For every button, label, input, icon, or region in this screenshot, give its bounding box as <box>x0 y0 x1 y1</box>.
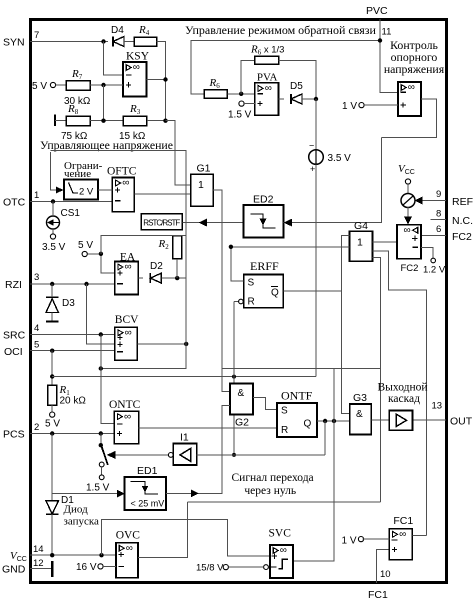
svg-text:Выходной: Выходной <box>378 382 428 394</box>
terminal 5V R1 <box>50 412 55 417</box>
svg-text:ONTF: ONTF <box>281 389 313 403</box>
resistor R4 <box>134 37 157 46</box>
pin 1 OTC wire <box>30 201 112 203</box>
svg-text:KSY: KSY <box>126 51 150 63</box>
svg-text:ONTC: ONTC <box>109 399 141 411</box>
svg-text:OTC: OTC <box>3 197 26 209</box>
terminal 1.5V switch <box>99 475 104 480</box>
wire RZI to BCV second plus <box>87 284 115 344</box>
svg-text:R: R <box>281 425 288 436</box>
OFTC minus sign <box>115 200 121 202</box>
comparator OFTC <box>112 178 134 212</box>
PVA plus sign <box>258 101 263 106</box>
wire R2 bottom <box>176 259 178 278</box>
terminal 1.5V PVA <box>239 101 244 106</box>
wire 15/8V to SVC bubble <box>228 566 263 568</box>
wire ED1 output to G2 lower input <box>166 405 230 493</box>
bus wire to G4 lower input <box>231 246 350 248</box>
wire G4 output2 to FC1 net <box>373 251 427 536</box>
logic gate G1 <box>191 174 214 206</box>
resistor R7 <box>66 81 90 91</box>
wire 5V rail over R2 <box>101 236 186 254</box>
svg-text:D5: D5 <box>290 81 303 92</box>
wire Q node down to I1 line <box>324 421 326 455</box>
wire G3 out to output stage <box>371 419 389 421</box>
wire FC2 minus to 1.2V <box>421 247 433 258</box>
arrow into ED1 <box>117 490 125 498</box>
svg-text:< 25 mV: < 25 mV <box>131 499 165 509</box>
svg-text:Управляющее напряжение: Управляющее напряжение <box>40 138 173 152</box>
svg-text:+: + <box>310 164 315 174</box>
wire SYN to D4 junction <box>101 39 105 43</box>
diode D3 vertical <box>46 296 58 298</box>
svg-text:∞: ∞ <box>125 262 132 273</box>
svg-text:OCI: OCI <box>4 346 23 358</box>
wire R4 right corner down <box>157 42 166 122</box>
diode D4 <box>112 37 114 47</box>
EA plus sign <box>117 270 122 275</box>
pin 2 PCS wire <box>30 433 114 435</box>
wire current source down to OCI net <box>315 164 317 376</box>
wire D4 to R4 <box>124 41 134 43</box>
flip-flop ONTF <box>277 403 317 437</box>
pin 12 GND wire <box>30 568 52 570</box>
current source 3.5V <box>309 150 324 165</box>
terminal 5V EA <box>82 251 87 256</box>
svg-text:PVA: PVA <box>257 72 278 84</box>
wire 1V to FC1 minus <box>363 538 390 540</box>
diode D1 vertical <box>46 501 58 514</box>
OVC plus sign <box>119 552 124 557</box>
pin 14 Vcc wire <box>30 554 116 556</box>
terminal 16V <box>98 564 103 569</box>
svg-text:12: 12 <box>33 558 44 569</box>
junction RZI riser <box>84 282 88 286</box>
wire G4 output3 to line B <box>373 257 381 502</box>
svg-text:∞: ∞ <box>124 411 131 422</box>
pin 11 lead <box>380 19 398 92</box>
wire OFTC output to G1 <box>134 193 190 195</box>
wire R7 to KSY plus <box>90 84 123 86</box>
svg-text:∞: ∞ <box>126 543 133 554</box>
wire I1 input from right <box>197 454 325 456</box>
edge detector ED1 <box>125 477 166 510</box>
SVC step symbol <box>279 559 289 569</box>
svg-text:R: R <box>248 297 255 308</box>
svg-text:5 V: 5 V <box>78 240 93 251</box>
wire R3 to right node <box>147 120 166 122</box>
svg-text:RSTC/RSTF: RSTC/RSTF <box>143 218 180 227</box>
limiter block 2V <box>64 180 98 200</box>
wire 5V to R7 <box>56 84 66 86</box>
wire control net from BCV node up <box>51 151 187 344</box>
comparator EA <box>115 262 139 295</box>
wire PCS to D1 <box>51 434 53 501</box>
wire source to FC2 with arrow <box>407 207 409 217</box>
current source Vcc-REF <box>407 184 409 194</box>
svg-text:G1: G1 <box>197 163 211 175</box>
wire ONTC out to ONTF R <box>139 427 277 429</box>
KSY plus sign <box>126 82 131 87</box>
FC1 plus sign <box>392 547 397 552</box>
svg-text:Q: Q <box>271 288 279 299</box>
wire PCS node to switch <box>100 434 102 446</box>
svg-text:20 kΩ: 20 kΩ <box>60 396 87 407</box>
svg-text:4: 4 <box>34 323 39 334</box>
wire BCV node loop down-left <box>101 344 186 369</box>
junction Vcc-OVC <box>99 553 103 557</box>
svg-text:OVC: OVC <box>116 530 141 542</box>
svg-text:∞: ∞ <box>122 178 129 189</box>
pin 8 N.C. stub <box>431 219 447 221</box>
svg-text:D2: D2 <box>150 261 163 272</box>
wire R6x13 right corner down <box>279 60 317 99</box>
wire ERFF R riser <box>234 301 239 303</box>
svg-text:S: S <box>281 406 288 417</box>
svg-text:FC2: FC2 <box>401 263 419 274</box>
FC1 minus sign <box>392 539 398 541</box>
svg-text:1.5 V: 1.5 V <box>228 110 252 121</box>
svg-text:5 V: 5 V <box>32 81 47 92</box>
svg-text:∞: ∞ <box>265 83 272 94</box>
switch arm <box>101 445 108 465</box>
svg-text:OUT: OUT <box>450 416 473 428</box>
GND terminal bar <box>51 561 53 577</box>
wire pin11 to R6 <box>191 41 380 94</box>
svg-text:1: 1 <box>198 179 204 191</box>
svg-text:∞: ∞ <box>399 529 406 540</box>
svg-text:PVC: PVC <box>366 5 388 17</box>
wire refctl output loop <box>381 99 436 137</box>
wire OCI down to R1 <box>51 351 53 385</box>
svg-text:SRC: SRC <box>3 330 26 342</box>
svg-text:&: & <box>356 409 363 420</box>
BCV plus1 sign <box>117 335 122 340</box>
wire KSY output <box>147 79 166 81</box>
wire BCV output to node <box>137 343 186 345</box>
svg-text:D3: D3 <box>62 298 75 309</box>
svg-text:BCV: BCV <box>115 314 139 326</box>
pin 13 OUT wire <box>412 419 446 421</box>
svg-text:1 V: 1 V <box>342 536 357 547</box>
svg-text:FC2: FC2 <box>452 231 472 243</box>
svg-text:&: & <box>238 388 245 399</box>
svg-text:14: 14 <box>33 544 44 555</box>
comparator KSY <box>123 62 147 97</box>
svg-text:1: 1 <box>357 237 363 249</box>
svg-text:1 V: 1 V <box>342 101 357 112</box>
pin 3 RZI wire <box>30 283 115 285</box>
svg-text:S: S <box>248 278 255 289</box>
junction PCS-D1 <box>50 431 54 435</box>
svg-text:каскад: каскад <box>388 393 420 405</box>
wire 1.5V to PVA plus <box>244 103 255 105</box>
output stage buffer <box>389 410 412 430</box>
wire G2 out to ONTF S <box>253 398 277 410</box>
svg-text:1: 1 <box>34 190 39 201</box>
refctl plus sign <box>401 103 406 108</box>
OFTC plus sign <box>115 187 120 192</box>
EA minus sign <box>117 283 123 285</box>
wire control voltage <box>51 152 57 190</box>
svg-text:чение: чение <box>64 168 91 180</box>
svg-text:5 V: 5 V <box>45 419 60 430</box>
wire SRC node down to loop <box>100 335 102 369</box>
pin 7 SYN lead and wire <box>30 41 108 43</box>
wire bar to R8 <box>55 120 66 122</box>
wire 1V to refctl plus <box>364 104 398 106</box>
wire G1 output down to G2 upper input <box>213 190 230 392</box>
svg-text:ED1: ED1 <box>137 465 158 477</box>
svg-text:5: 5 <box>34 340 39 351</box>
svg-text:G4: G4 <box>354 220 368 232</box>
inverter I1 <box>173 443 196 465</box>
wire ERFF Qbar to G4 upper input <box>283 236 349 291</box>
svg-text:G2: G2 <box>235 417 249 429</box>
diode D2 <box>149 273 151 283</box>
ground bar R8 <box>54 115 56 127</box>
wire KSY minus from D4 node <box>104 42 124 76</box>
svg-text:13: 13 <box>432 401 443 412</box>
svg-text:через нуль: через нуль <box>244 485 296 497</box>
wire switch to I1 with arrow <box>113 454 168 456</box>
terminal 1V refctl <box>359 103 364 108</box>
svg-text:3: 3 <box>34 272 39 283</box>
comparator OVC <box>116 543 138 578</box>
svg-text:8: 8 <box>436 209 441 220</box>
SVC bubble <box>264 565 269 570</box>
junction OTC-CS1 <box>51 199 55 203</box>
resistor R8 <box>66 116 90 126</box>
svg-text:ERFF: ERFF <box>250 259 279 273</box>
svg-text:∞: ∞ <box>280 545 287 556</box>
ONTC minus sign <box>117 423 123 425</box>
zero-cross bus wire line B <box>188 501 381 503</box>
BCV minus sign <box>117 351 123 353</box>
svg-text:15/8 V: 15/8 V <box>196 563 224 574</box>
svg-text:I1: I1 <box>180 432 189 444</box>
comparator BCV <box>115 327 138 360</box>
terminal 3.5V CS1 <box>50 234 55 239</box>
resistor R1 <box>48 385 57 405</box>
wire KSY plus node down <box>103 85 105 122</box>
svg-text:OFTC: OFTC <box>107 166 137 178</box>
wire OCI net to 3.5V source <box>52 376 316 378</box>
svg-text:∞: ∞ <box>408 82 415 93</box>
svg-text:FC1: FC1 <box>368 589 388 601</box>
block RSTC/RSTF <box>141 214 182 230</box>
pin 4 SRC wire <box>30 334 115 336</box>
svg-text:∞: ∞ <box>133 62 140 73</box>
pin 9 REF wire with arrow <box>415 200 446 202</box>
svg-text:11: 11 <box>382 27 392 38</box>
pin 10 lead <box>376 549 389 583</box>
wire limiter to OFTC plus <box>98 189 112 191</box>
resistor R2 <box>173 236 182 259</box>
resistor R3 <box>123 116 146 126</box>
wire D1 node to ED1 <box>52 493 117 495</box>
comparator SVC <box>270 545 293 578</box>
resistor R6 x 1/3 <box>255 56 279 64</box>
ERFF R bubble <box>239 299 244 304</box>
wire R6 to PVA minus <box>227 93 255 95</box>
FC2 plus sign <box>412 236 417 241</box>
svg-text:N.C.: N.C. <box>452 215 473 227</box>
svg-text:CS1: CS1 <box>61 208 81 219</box>
svg-text:∞: ∞ <box>404 225 411 236</box>
FC2 minus sign <box>413 246 419 248</box>
pin 6 FC2 wire <box>421 234 446 236</box>
BCV plus2 sign <box>117 342 122 347</box>
svg-text:FC1: FC1 <box>393 515 413 527</box>
svg-text:напряжения: напряжения <box>384 62 445 76</box>
svg-text:−: − <box>309 141 314 151</box>
svg-text:2: 2 <box>34 422 39 433</box>
svg-text:REF: REF <box>452 196 473 208</box>
wire node down to current source <box>315 99 317 151</box>
svg-text:R6 x 1/3: R6 x 1/3 <box>250 44 284 57</box>
comparator FC1 <box>389 529 412 560</box>
terminal Vcc right <box>405 179 410 184</box>
resistor R6 <box>204 90 227 99</box>
I1 bubble <box>168 453 173 458</box>
svg-text:9: 9 <box>436 189 441 200</box>
svg-text:Диод: Диод <box>64 504 89 516</box>
svg-text:7: 7 <box>34 30 39 41</box>
terminal 1V FC1 <box>358 537 363 542</box>
flip-flop ERFF <box>244 275 284 308</box>
junction OCI-R1 <box>50 349 54 353</box>
wire D5 to node <box>302 98 316 100</box>
refctl minus sign <box>400 91 406 93</box>
wire node to G1 input <box>166 121 191 186</box>
svg-text:GND: GND <box>2 564 26 576</box>
wire OVC output riser <box>138 502 188 557</box>
terminal 5V KSY <box>50 82 55 87</box>
SVC minus sign <box>271 566 277 568</box>
wire G4 output to FC2 <box>373 241 398 243</box>
switch contact circle <box>99 462 104 467</box>
svg-text:запуска: запуска <box>64 516 100 528</box>
diode D5 <box>290 94 292 104</box>
svg-text:1.2 V: 1.2 V <box>423 265 446 276</box>
wire PVA out to D5 <box>279 98 284 100</box>
svg-text:Управление режимом обратной св: Управление режимом обратной связи <box>185 23 376 37</box>
junction SRC-BCV <box>99 332 103 336</box>
terminal 15/8V <box>223 565 228 570</box>
D3 ground bar <box>46 321 58 323</box>
svg-text:ED2: ED2 <box>253 194 274 206</box>
wire loop down to ONTC minus <box>101 369 114 424</box>
svg-text:3.5 V: 3.5 V <box>328 153 352 164</box>
svg-text:3.5 V: 3.5 V <box>42 242 66 253</box>
svg-text:Q: Q <box>304 419 312 430</box>
svg-text:SVC: SVC <box>269 528 292 540</box>
svg-text:Сигнал перехода: Сигнал перехода <box>232 472 314 484</box>
arrow into limiter <box>56 187 64 194</box>
OVC minus sign <box>118 565 124 567</box>
pin 5 OCI wire <box>30 350 115 352</box>
wire D2 to R2 node <box>161 277 186 279</box>
wire R8 to R3 <box>90 120 123 122</box>
comparator PVA <box>255 83 279 116</box>
svg-text:∞: ∞ <box>125 327 132 338</box>
logic gate G4 <box>350 231 373 261</box>
ONTC plus sign <box>117 431 122 436</box>
junction RZI-D3 <box>50 282 54 286</box>
wire ED2 out to RSTC/RSTF with arrow <box>182 222 243 224</box>
KSY minus sign <box>126 74 132 76</box>
svg-text:10: 10 <box>380 569 391 580</box>
current source CS1 <box>47 216 60 229</box>
wire ONTF Q to G3 <box>317 420 350 422</box>
svg-text:RZI: RZI <box>5 279 22 291</box>
svg-text:6: 6 <box>436 224 441 235</box>
wire 16V to OVC minus <box>103 565 116 567</box>
comparator FC2 mirrored <box>397 225 421 259</box>
SVC plus sign <box>272 554 277 559</box>
svg-text:2 V: 2 V <box>79 187 94 198</box>
svg-text:D4: D4 <box>111 25 124 36</box>
svg-text:1.5 V: 1.5 V <box>86 483 110 494</box>
logic gate G2 <box>230 384 253 415</box>
wire into ED2 from right with arrow <box>283 137 381 222</box>
wire Vcc net stair to SVC plus <box>102 519 271 556</box>
wire EA output to D2 <box>138 277 143 279</box>
comparator reference control <box>398 82 421 116</box>
junction PCS-ONTC <box>99 431 103 435</box>
svg-text:PCS: PCS <box>3 429 25 441</box>
comparator ONTC <box>114 411 138 444</box>
wire long mid vertical <box>293 368 334 561</box>
wire bus to ERFF S <box>231 247 244 281</box>
svg-text:SYN: SYN <box>3 37 25 49</box>
logic gate G3 <box>350 404 372 435</box>
PVA minus sign <box>257 93 263 95</box>
wire Qbar riser down to G3 <box>342 291 350 414</box>
wire 5V to EA plus <box>87 254 114 273</box>
wire node up to R6x13 <box>241 60 255 94</box>
wire R1 to 5V terminal <box>51 405 53 412</box>
terminal 1.2V <box>431 258 436 263</box>
switch contact link <box>101 467 103 475</box>
wire FC1 output <box>412 535 426 537</box>
svg-text:G3: G3 <box>353 392 367 404</box>
edge detector ED2 <box>244 205 284 237</box>
svg-text:16 V: 16 V <box>76 562 97 573</box>
wire mid horizontal link <box>222 367 381 369</box>
